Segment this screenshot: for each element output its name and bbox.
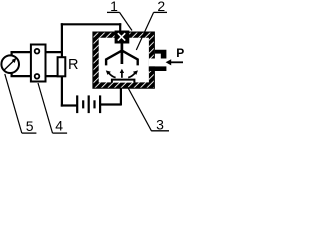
svg-text:R: R bbox=[68, 57, 78, 73]
meter (galvanometer) circle bbox=[1, 55, 19, 73]
battery cell plate short 1 bbox=[82, 100, 84, 108]
battery cell plate short 2 bbox=[93, 100, 95, 108]
component 4 box bbox=[31, 45, 46, 82]
wire top from meter to component 4 and trunk bbox=[11, 51, 64, 53]
port upper lip bbox=[155, 50, 167, 59]
battery cell plate tall 2 bbox=[88, 95, 90, 113]
underline of label 2 bbox=[154, 11, 167, 13]
wire up from battery to chamber bottom bbox=[120, 88, 122, 106]
leader line 4 bbox=[38, 83, 53, 133]
leader line 2 bbox=[136, 12, 153, 50]
svg-text:5: 5 bbox=[26, 118, 34, 134]
emission arrow right bbox=[128, 73, 135, 78]
wire meter top stub bbox=[11, 51, 13, 55]
collector plate (element 3) bbox=[112, 80, 134, 83]
wire vertical trunk x=61.9 bbox=[61, 23, 63, 58]
underline of label 3 bbox=[151, 130, 169, 132]
tent left leg bbox=[106, 51, 122, 66]
leader line 3 bbox=[126, 84, 151, 131]
wire bottom from meter to resistor bottom bbox=[11, 75, 63, 77]
meter needle arrow bbox=[4, 61, 14, 70]
svg-text:3: 3 bbox=[156, 117, 164, 133]
terminal circle top of component 4 bbox=[35, 49, 40, 54]
resistor R bbox=[58, 57, 66, 76]
tent right leg bbox=[122, 51, 138, 66]
electrode square with X (element 1) bbox=[115, 31, 130, 44]
arrow P (gas inlet) bbox=[170, 61, 183, 63]
svg-text:P: P bbox=[176, 46, 184, 60]
battery cell plate tall 3 bbox=[99, 95, 101, 113]
port lower lip bbox=[149, 66, 167, 71]
terminal circle bottom of component 4 bbox=[35, 74, 40, 79]
svg-text:4: 4 bbox=[55, 118, 63, 134]
wire meter bottom stub bbox=[11, 74, 13, 78]
wire vertical below resistor to battery bbox=[61, 76, 63, 107]
underline of label 1 bbox=[107, 11, 120, 13]
port channel (gas inlet opening) bbox=[149, 59, 167, 67]
leader line 5 bbox=[5, 74, 22, 133]
underline of label 4 bbox=[53, 132, 68, 134]
stem below square bbox=[121, 44, 124, 65]
leader line 1 bbox=[120, 12, 133, 30]
emission arrow left bbox=[109, 73, 116, 78]
underline of label 5 bbox=[22, 132, 37, 134]
wire top long to chamber bbox=[61, 23, 121, 25]
battery cell plate tall 1 bbox=[76, 95, 78, 113]
wire down into X-square bbox=[119, 23, 121, 32]
white X mark bbox=[118, 33, 125, 40]
chamber wall bbox=[92, 32, 154, 89]
wire battery left horizontal bbox=[61, 104, 77, 106]
wire battery right horizontal bbox=[100, 103, 121, 105]
emission arrow center bbox=[121, 72, 123, 78]
